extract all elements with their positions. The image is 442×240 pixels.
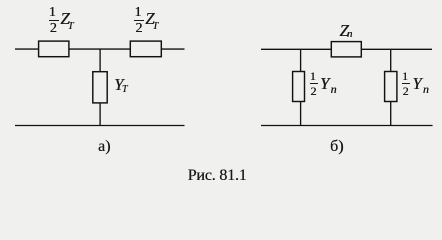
label: Yp value, right box <box>412 75 429 95</box>
label: Zt value, left box <box>60 10 73 33</box>
wire: left circuit top rail <box>15 48 185 50</box>
label: 1/2 fraction of left Yp <box>309 69 311 71</box>
admittance Y2: 1/2 Yp shunt box, left <box>293 72 305 102</box>
wire: right circuit top rail <box>261 48 432 50</box>
resistor Z2: 1/2 Zt series impedance box, right <box>130 41 161 57</box>
wire: right circuit right shunt branch <box>390 49 392 125</box>
wire: left circuit shunt branch <box>99 49 101 125</box>
label: Yp value, left box <box>320 75 337 95</box>
label: 1/2 fraction of left Zt <box>48 4 50 6</box>
wire: left circuit bottom rail <box>15 125 185 127</box>
label: Zt value, right box <box>145 10 158 33</box>
label: sub-figure marker a) <box>98 139 110 155</box>
label: Yt value <box>114 76 127 95</box>
admittance Y1: Yt shunt box <box>93 72 107 103</box>
label: 1/2 fraction of right Zt <box>133 4 135 6</box>
label: sub-figure marker b) <box>330 139 343 155</box>
wire: right circuit left shunt branch <box>300 49 302 125</box>
label: Zp value <box>339 22 352 40</box>
admittance Y3: 1/2 Yp shunt box, right <box>385 72 397 102</box>
resistor Z3: Zp series impedance box <box>331 42 361 57</box>
label: figure caption Рис. 81.1 <box>188 168 247 184</box>
resistor Z1: 1/2 Zt series impedance box, left <box>39 41 69 57</box>
wire: right circuit bottom rail <box>261 125 433 127</box>
label: 1/2 fraction of right Yp <box>401 69 403 71</box>
